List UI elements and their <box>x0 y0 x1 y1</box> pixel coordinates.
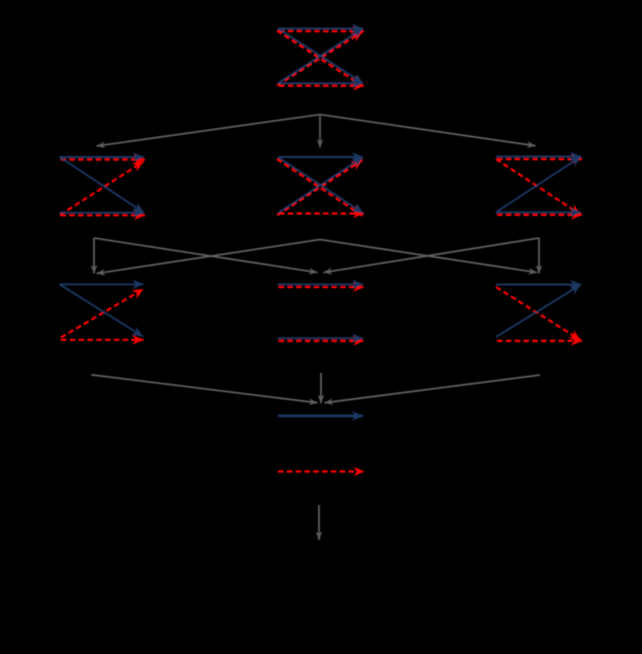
butterfly B2 top edge blue arrow <box>60 156 145 158</box>
final gray down arrow <box>318 505 320 540</box>
butterfly B5 down diagonal blue arrow <box>60 284 144 336</box>
butterfly B3 up diagonal blue arrow <box>278 157 363 213</box>
butterfly B4 top edge red dashed arrow <box>497 158 582 160</box>
butterfly B5 up diagonal red dashed arrow <box>61 289 144 338</box>
result red dashed arrow <box>278 470 365 472</box>
butterfly B7 up diagonal blue arrow <box>496 285 581 338</box>
butterfly B2 top edge red dashed arrow <box>61 159 146 161</box>
butterfly B2 bottom edge blue arrow <box>60 212 145 214</box>
connector stage3 left to center <box>91 375 317 403</box>
butterfly B1 bottom edge red dashed arrow <box>279 85 364 87</box>
butterfly B2 down diagonal blue arrow <box>60 157 145 213</box>
connector stage2 center to right <box>320 240 537 273</box>
pair B6 top blue arrow <box>278 283 364 285</box>
butterfly B5 bottom edge red dashed arrow <box>61 339 144 341</box>
butterfly B4 bottom edge red dashed arrow <box>497 214 582 216</box>
butterfly B1 down diagonal blue arrow <box>278 29 363 84</box>
connector stage2 left to center <box>94 238 318 273</box>
butterfly B7 down diagonal red dashed arrow <box>496 287 581 340</box>
pair B6 bottom red dashed arrow <box>279 340 365 342</box>
butterfly B3 down diagonal blue arrow <box>278 157 363 213</box>
connector stage1 vertical <box>319 115 321 148</box>
butterfly B1 top edge red dashed arrow <box>279 30 364 32</box>
butterfly B4 down diagonal red dashed arrow <box>496 159 581 214</box>
result blue arrow <box>278 414 363 417</box>
connector stage2 right vertical <box>538 238 540 274</box>
butterfly B7 bottom edge red dashed arrow <box>497 340 582 342</box>
connector stage2 left vertical <box>93 238 95 274</box>
connector stage2 right to center <box>324 238 540 273</box>
butterfly B2 bottom edge red dashed arrow <box>61 214 146 216</box>
connector stage1 to left <box>97 115 321 147</box>
butterfly B3 down diagonal red dashed arrow <box>277 159 363 216</box>
butterfly B5 top edge blue arrow <box>60 283 144 285</box>
butterfly B4 top edge blue arrow <box>496 156 581 158</box>
butterfly B1 top edge blue arrow <box>278 28 363 30</box>
connector stage3 right to center <box>325 375 541 403</box>
butterfly B3 bottom edge red dashed arrow <box>279 212 364 214</box>
butterfly B2 up diagonal red dashed arrow <box>60 162 144 216</box>
butterfly B7 top edge blue arrow <box>496 284 581 286</box>
butterfly B1 up diagonal blue arrow <box>278 29 363 84</box>
butterfly B3 up diagonal red dashed arrow <box>277 160 363 215</box>
butterfly B1 bottom edge blue arrow <box>278 82 363 84</box>
connector stage2 center to left <box>97 240 321 274</box>
butterfly B4 up diagonal blue arrow <box>496 157 581 213</box>
pair B6 bottom blue arrow <box>278 337 364 339</box>
connector stage3 vertical <box>320 373 322 403</box>
butterfly B3 top edge blue arrow <box>278 156 363 158</box>
butterfly B1 down diagonal red dashed arrow <box>277 31 363 86</box>
butterfly B1 up diagonal red dashed arrow <box>277 32 363 86</box>
connector stage1 to right <box>320 115 536 146</box>
pair B6 top red dashed arrow <box>279 286 365 288</box>
butterfly B4 bottom edge blue arrow <box>496 211 581 213</box>
